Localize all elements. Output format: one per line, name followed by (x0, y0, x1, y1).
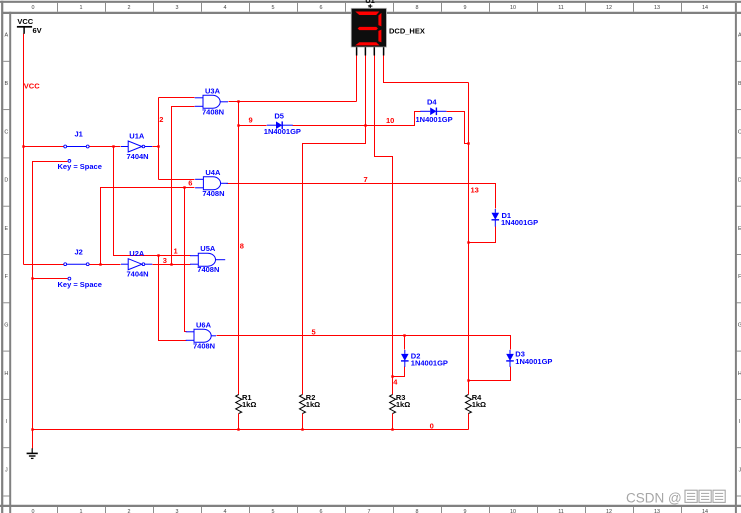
wire net 9 U3A output to display pin1 (229, 101, 357, 103)
seven segment display U1 DCD_HEX showing 3 (351, 0, 425, 55)
svg-text:I: I (739, 419, 741, 425)
diode D5 1N4001GP (264, 112, 301, 137)
svg-text:J2: J2 (75, 247, 83, 256)
wire net A to U6A input B (159, 256, 187, 341)
resistor R4 1k (465, 393, 486, 413)
wire D1 cathode to net 13 (469, 227, 496, 243)
diode D4 1N4001GP (416, 98, 453, 125)
svg-text:7404N: 7404N (127, 270, 149, 279)
wire J1 throw2 to ground line (33, 162, 68, 430)
svg-text:7404N: 7404N (127, 152, 149, 161)
svg-text:DCD_HEX: DCD_HEX (389, 27, 425, 36)
svg-text:VCC: VCC (24, 81, 40, 90)
svg-text:I: I (6, 419, 8, 425)
wire net 2 into U4A input A (159, 179, 195, 181)
wire net B branch down to U6A input A (185, 188, 187, 332)
svg-text:D: D (4, 178, 8, 184)
svg-text:9: 9 (464, 509, 467, 513)
svg-text:11: 11 (558, 5, 564, 11)
wire net 10 D5 to D4 (293, 112, 421, 126)
svg-text:U3A: U3A (205, 86, 221, 95)
svg-text:B: B (4, 81, 8, 87)
wire net 8 vertical to R1 (238, 102, 240, 395)
svg-text:13: 13 (471, 186, 479, 195)
wire D2 cathode to net 4 (393, 367, 405, 377)
svg-text:U5A: U5A (200, 244, 216, 253)
svg-text:D5: D5 (274, 112, 284, 121)
wire J1 pole to U1A input (90, 146, 121, 148)
svg-text:Key = Space: Key = Space (58, 162, 102, 171)
svg-text:J: J (5, 467, 8, 473)
wire R3 bottom (392, 414, 394, 430)
wire display pin2 drop to R2 (303, 56, 366, 395)
svg-text:1: 1 (80, 5, 83, 11)
svg-text:7408N: 7408N (202, 107, 224, 116)
svg-text:13: 13 (654, 509, 660, 513)
svg-text:1N4001GP: 1N4001GP (411, 359, 448, 368)
svg-text:1: 1 (80, 509, 83, 513)
wire net 9 into D5 (239, 125, 267, 127)
svg-text:12: 12 (606, 5, 612, 11)
svg-text:4: 4 (224, 5, 227, 11)
svg-text:7408N: 7408N (193, 341, 215, 350)
svg-text:14: 14 (702, 509, 708, 513)
wire net 13 vertical to R4 (468, 83, 470, 395)
svg-text:5: 5 (272, 509, 275, 513)
svg-text:1N4001GP: 1N4001GP (264, 127, 301, 136)
inverter U2A 7404N (121, 249, 152, 279)
svg-text:5: 5 (272, 5, 275, 11)
svg-text:C: C (4, 129, 8, 135)
wire net 2 into U3A input A (159, 97, 195, 99)
svg-text:A: A (4, 33, 8, 39)
svg-text:2: 2 (159, 115, 163, 124)
svg-text:0: 0 (32, 509, 35, 513)
svg-text:11: 11 (558, 509, 564, 513)
resistor R3 1k (390, 393, 411, 413)
wire net 1 vertical to U3A input B (172, 107, 195, 265)
wire display pin4 to net 13 (384, 56, 469, 83)
svg-text:7408N: 7408N (197, 265, 219, 274)
diode D3 1N4001GP (506, 350, 552, 367)
svg-text:13: 13 (654, 5, 660, 11)
wire display pin1 drop (356, 56, 358, 102)
wire VCC to J1 throw (24, 146, 64, 148)
AND gate U5A 7408N (190, 244, 225, 274)
svg-text:7: 7 (364, 175, 368, 184)
diode D1 1N4001GP (492, 209, 539, 227)
svg-text:8: 8 (416, 5, 419, 11)
watermark (626, 490, 725, 505)
svg-text:1N4001GP: 1N4001GP (501, 218, 538, 227)
svg-text:2: 2 (128, 5, 131, 11)
wire junction dots (22, 100, 469, 430)
svg-text:7: 7 (368, 509, 371, 513)
svg-text:14: 14 (702, 5, 708, 11)
wire D3 cathode to net 13 (469, 367, 511, 381)
svg-text:CSDN @: CSDN @ (626, 490, 682, 505)
wire net B up to U4A input B (101, 188, 195, 265)
wire R2 bottom (302, 414, 304, 430)
wire D4 cathode to net 13 (447, 112, 469, 144)
svg-text:10: 10 (386, 116, 394, 125)
wire J2 pole to U2A input (90, 264, 121, 266)
AND gate U6A 7408N (186, 320, 216, 350)
wire J2 throw2 to ground line (33, 278, 68, 280)
svg-text:1kΩ: 1kΩ (306, 400, 320, 409)
svg-text:VCC: VCC (17, 17, 33, 26)
svg-text:D4: D4 (427, 98, 437, 107)
AND gate U4A 7408N (195, 168, 228, 198)
svg-text:9: 9 (464, 5, 467, 11)
svg-text:1kΩ: 1kΩ (242, 400, 256, 409)
svg-text:G: G (4, 323, 8, 329)
wire R4 bottom (468, 414, 470, 430)
svg-text:9: 9 (249, 116, 253, 125)
svg-text:3: 3 (176, 509, 179, 513)
svg-text:1N4001GP: 1N4001GP (416, 115, 453, 124)
wire net 2 U1A output stub (153, 146, 159, 148)
wire net A branch down to U5A (114, 147, 191, 256)
svg-text:0: 0 (430, 422, 434, 431)
wire net 7 U4A output to D1 (227, 184, 496, 209)
svg-text:10: 10 (510, 509, 516, 513)
svg-text:U6A: U6A (196, 320, 212, 329)
svg-text:10: 10 (510, 5, 516, 11)
svg-text:Key = Space: Key = Space (58, 280, 102, 289)
svg-text:U1A: U1A (129, 131, 145, 140)
svg-text:3: 3 (163, 256, 167, 265)
svg-text:U2A: U2A (129, 249, 145, 258)
svg-text:3: 3 (176, 5, 179, 11)
svg-text:8: 8 (416, 509, 419, 513)
svg-text:1N4001GP: 1N4001GP (515, 357, 552, 366)
wire display pin3 to net 4 / R3 (375, 56, 393, 395)
inverter U1A 7404N (121, 131, 152, 161)
svg-text:5: 5 (312, 328, 316, 337)
switch J1 SPDT Key=Space (58, 130, 102, 171)
wire net 1 U2A output to U5A input B (153, 264, 191, 266)
svg-text:0: 0 (32, 5, 35, 11)
wire ground rail net 0 (33, 429, 469, 431)
svg-text:4: 4 (224, 509, 227, 513)
svg-text:12: 12 (606, 509, 612, 513)
wire net 5 U6A output to D3 (217, 336, 511, 350)
svg-text:6: 6 (320, 5, 323, 11)
wire ground stub (32, 430, 34, 449)
AND gate U3A 7408N (195, 86, 228, 116)
svg-text:7408N: 7408N (202, 189, 224, 198)
svg-text:1kΩ: 1kΩ (396, 400, 410, 409)
resistor R2 1k (300, 393, 321, 413)
svg-text:E: E (4, 226, 8, 232)
svg-text:J1: J1 (75, 130, 83, 139)
svg-text:U4A: U4A (205, 168, 221, 177)
switch J2 SPDT Key=Space (58, 247, 102, 288)
svg-text:2: 2 (128, 509, 131, 513)
wire VCC rail down left side (23, 34, 25, 265)
resistor R1 1k (236, 393, 257, 413)
wire R1 bottom (238, 414, 240, 430)
power source VCC 6V (17, 17, 42, 35)
wire net 5 branch to D2 anode (404, 336, 406, 350)
wire VCC to J2 throw (24, 264, 64, 266)
svg-text:8: 8 (240, 241, 244, 250)
svg-text:1: 1 (174, 246, 178, 255)
svg-text:6: 6 (188, 179, 192, 188)
svg-text:1kΩ: 1kΩ (472, 400, 486, 409)
ground (27, 448, 38, 458)
svg-text:6: 6 (320, 509, 323, 513)
svg-text:H: H (4, 371, 8, 377)
diode D2 1N4001GP (401, 350, 448, 368)
svg-text:6V: 6V (33, 26, 42, 35)
wire net 2 vertical to U3A input A (158, 98, 160, 180)
